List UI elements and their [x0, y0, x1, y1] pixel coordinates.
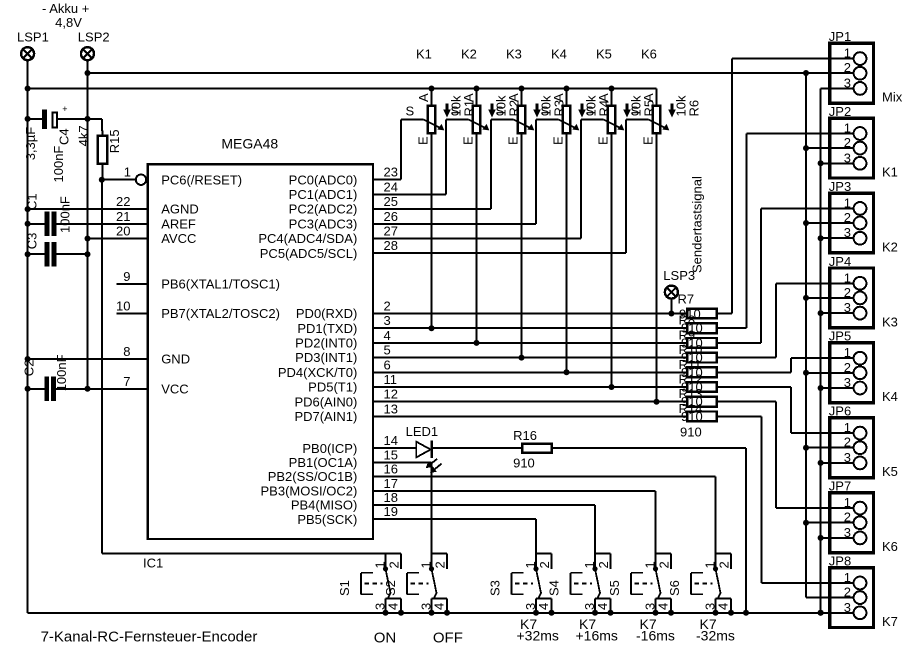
- svg-text:PC0(ADC0): PC0(ADC0): [289, 172, 358, 187]
- connector JP6 (K5): [828, 404, 898, 480]
- svg-text:PC1(ADC1): PC1(ADC1): [289, 187, 358, 202]
- potentiometer K3 (R3 10k): [491, 47, 567, 361]
- svg-text:3: 3: [844, 225, 851, 240]
- svg-text:1: 1: [844, 121, 851, 136]
- svg-text:3: 3: [844, 300, 851, 315]
- svg-text:K5: K5: [882, 464, 898, 479]
- IC1 right pin labels: [258, 172, 357, 527]
- svg-text:PD1(TXD): PD1(TXD): [297, 321, 357, 336]
- wire JP5 pin2 from plus rail: [806, 372, 828, 374]
- svg-text:K6: K6: [882, 539, 898, 554]
- svg-text:26: 26: [384, 209, 398, 224]
- wire PC3 ADC3 to K4 wiper: [373, 223, 536, 225]
- svg-text:16: 16: [384, 462, 398, 477]
- svg-text:K1: K1: [882, 165, 898, 180]
- svg-text:1: 1: [124, 165, 131, 180]
- svg-text:E: E: [461, 136, 476, 145]
- connector JP5 (K4): [828, 329, 898, 405]
- svg-text:15: 15: [384, 447, 398, 462]
- svg-text:1: 1: [844, 570, 851, 585]
- svg-text:-16ms: -16ms: [636, 628, 675, 644]
- svg-text:K1: K1: [416, 47, 432, 62]
- wire PB3 to S5: [373, 490, 656, 492]
- svg-text:AGND: AGND: [161, 202, 199, 217]
- svg-text:ON: ON: [374, 629, 397, 646]
- svg-text:C4: C4: [57, 128, 72, 145]
- svg-text:1: 1: [582, 561, 597, 568]
- svg-text:E: E: [596, 136, 611, 145]
- svg-text:VCC: VCC: [161, 381, 188, 396]
- wire PD7: [373, 415, 686, 417]
- wire plus bus horizontal: [88, 72, 829, 74]
- svg-text:910: 910: [681, 409, 703, 424]
- svg-text:1: 1: [643, 561, 658, 568]
- wire GND pin8: [28, 358, 148, 360]
- svg-text:LSP1: LSP1: [17, 30, 49, 45]
- svg-text:R6: R6: [687, 100, 702, 117]
- wire JP6 pin3 from minus rail: [821, 462, 829, 464]
- connector JP8 (K7): [828, 554, 898, 630]
- svg-text:27: 27: [384, 224, 398, 239]
- capacitor C1 on AREF: [28, 223, 45, 225]
- potentiometer K4 (R4 10k): [536, 47, 612, 376]
- connector JP1 (Mix): [828, 29, 903, 105]
- svg-text:C3: C3: [25, 233, 40, 250]
- svg-text:6: 6: [384, 357, 391, 372]
- svg-text:PD4(XCK/T0): PD4(XCK/T0): [278, 365, 357, 380]
- svg-text:24: 24: [384, 179, 398, 194]
- svg-text:2: 2: [844, 510, 851, 525]
- svg-text:1: 1: [523, 561, 538, 568]
- svg-text:10: 10: [116, 299, 130, 314]
- svg-text:910: 910: [680, 425, 702, 440]
- svg-text:2: 2: [596, 561, 611, 568]
- svg-text:S: S: [406, 104, 415, 119]
- wire LSP3 to PD0: [670, 299, 672, 314]
- svg-text:21: 21: [116, 209, 130, 224]
- svg-text:2: 2: [844, 210, 851, 225]
- svg-text:K4: K4: [882, 389, 898, 404]
- wire PD6: [373, 401, 686, 403]
- wire minus rail vertical: [27, 60, 29, 613]
- connector JP2 (K1): [828, 104, 898, 180]
- svg-text:S4: S4: [547, 580, 562, 596]
- svg-text:PB3(MOSI/OC2): PB3(MOSI/OC2): [261, 483, 358, 498]
- svg-text:910: 910: [513, 456, 535, 471]
- capacitor C2 on VCC: [28, 388, 45, 390]
- svg-text:1: 1: [844, 270, 851, 285]
- svg-text:A: A: [416, 93, 431, 102]
- svg-text:A: A: [461, 93, 476, 102]
- wire R7 output to JP1 pin1: [718, 313, 732, 315]
- potentiometer K1 (R1 10k): [401, 47, 477, 332]
- switch S3: [511, 554, 554, 616]
- connector JP7 (K6): [828, 479, 898, 554]
- capacitor C3 plus to minus: [28, 253, 45, 255]
- svg-text:4: 4: [536, 603, 551, 610]
- svg-text:A: A: [596, 93, 611, 102]
- svg-text:-32ms: -32ms: [696, 628, 735, 644]
- svg-text:2: 2: [387, 561, 402, 568]
- svg-text:R15: R15: [107, 129, 122, 153]
- svg-text:4k7: 4k7: [76, 125, 91, 146]
- wire JP8 pin3 from minus rail: [821, 612, 829, 614]
- svg-text:PC2(ADC2): PC2(ADC2): [289, 202, 358, 217]
- wire reset vertical to S1: [101, 180, 103, 554]
- wire R11 output to JP5 pin1: [718, 371, 791, 373]
- wire JP1 pin3 from minus rail: [821, 87, 829, 89]
- svg-text:PD3(INT1): PD3(INT1): [295, 350, 357, 365]
- svg-text:2: 2: [844, 435, 851, 450]
- svg-text:R16: R16: [513, 428, 537, 443]
- IC1 left pin labels: [161, 172, 280, 396]
- svg-text:100nF: 100nF: [51, 146, 66, 183]
- node plus bus junction: [85, 70, 91, 76]
- svg-text:1: 1: [373, 561, 388, 568]
- svg-text:- Akku +: - Akku +: [42, 1, 89, 16]
- wire PB5 to S3: [373, 518, 536, 520]
- wire PB0 pin14: [373, 447, 416, 449]
- node C4 minus rail: [25, 116, 31, 122]
- resistor R15: [101, 119, 104, 135]
- svg-text:LSP2: LSP2: [78, 30, 110, 45]
- wire R16 to minus: [552, 447, 746, 449]
- wire JP1 pin2 from plus rail: [806, 72, 828, 74]
- svg-text:18: 18: [384, 490, 398, 505]
- wire PC2 ADC2 to K3 wiper: [373, 208, 491, 210]
- svg-text:OFF: OFF: [433, 629, 463, 646]
- wire PD2: [373, 342, 686, 344]
- svg-text:23: 23: [384, 165, 398, 180]
- svg-text:AREF: AREF: [161, 216, 196, 231]
- wire LED1 to R16: [432, 447, 522, 449]
- resistor R10 910: [679, 342, 717, 365]
- svg-text:K6: K6: [641, 47, 657, 62]
- svg-text:E: E: [641, 136, 656, 145]
- pin 1 inversion bubble: [136, 175, 146, 185]
- svg-text:2: 2: [844, 135, 851, 150]
- svg-text:LSP3: LSP3: [663, 268, 695, 283]
- svg-text:3: 3: [844, 375, 851, 390]
- svg-text:S1: S1: [337, 580, 352, 596]
- svg-text:C2: C2: [22, 360, 37, 377]
- terminal LSP1: [21, 47, 34, 60]
- svg-text:4,8V: 4,8V: [55, 15, 82, 30]
- wire AVCC pin20: [88, 238, 148, 240]
- wire PC4 ADC4 to K5 wiper: [373, 238, 581, 240]
- svg-text:K2: K2: [461, 47, 477, 62]
- svg-text:4: 4: [655, 603, 670, 610]
- svg-text:PB5(SCK): PB5(SCK): [297, 512, 357, 527]
- svg-text:1: 1: [419, 561, 434, 568]
- wire PC1 ADC1 to K2 wiper: [373, 193, 446, 195]
- pin numbers right side: [384, 165, 398, 520]
- svg-text:S5: S5: [607, 580, 622, 596]
- svg-text:4: 4: [715, 603, 730, 610]
- svg-text:S: S: [541, 104, 550, 119]
- wire reset to pin1 bubble: [102, 179, 136, 181]
- wire PD4: [373, 371, 686, 373]
- connector JP4 (K3): [828, 254, 898, 330]
- svg-text:A: A: [551, 93, 566, 102]
- svg-text:8: 8: [123, 344, 130, 359]
- svg-text:4: 4: [431, 603, 446, 610]
- svg-text:100nF: 100nF: [54, 354, 69, 391]
- potentiometer K6 (R6 10k): [626, 47, 702, 405]
- svg-text:S2: S2: [383, 580, 398, 596]
- wire JP2 pin3 from minus rail: [821, 162, 829, 164]
- switch S6: [691, 554, 734, 616]
- svg-text:S: S: [631, 104, 640, 119]
- svg-text:K4: K4: [551, 47, 567, 62]
- svg-text:4: 4: [385, 603, 400, 610]
- svg-text:2: 2: [657, 561, 672, 568]
- resistor R11 910: [679, 357, 717, 380]
- svg-text:2: 2: [717, 561, 732, 568]
- resistor R9 910: [679, 327, 717, 350]
- svg-text:3,3µF: 3,3µF: [23, 127, 38, 161]
- svg-text:+: +: [62, 104, 67, 114]
- svg-text:S3: S3: [488, 580, 503, 596]
- wire minus pin3 rail: [820, 88, 822, 612]
- svg-text:3: 3: [844, 450, 851, 465]
- svg-text:7-Kanal-RC-Fernsteuer-Encoder: 7-Kanal-RC-Fernsteuer-Encoder: [41, 629, 258, 646]
- connector JP3 (K2): [828, 179, 898, 255]
- svg-text:4: 4: [384, 328, 391, 343]
- svg-text:3: 3: [844, 75, 851, 90]
- svg-text:14: 14: [384, 433, 398, 448]
- wire R9 output to JP3 pin1: [718, 342, 761, 344]
- switch S4: [570, 554, 613, 616]
- svg-text:13: 13: [384, 401, 398, 416]
- svg-text:3: 3: [844, 525, 851, 540]
- wire JP3 pin2 from plus rail: [806, 222, 828, 224]
- wire R8 output to JP2 pin1: [718, 327, 747, 329]
- capacitor C4: [28, 118, 42, 120]
- svg-text:PC5(ADC5/SCL): PC5(ADC5/SCL): [260, 246, 358, 261]
- wire PB1 to S2: [373, 461, 432, 463]
- wire minus bus horizontal: [28, 88, 657, 90]
- svg-text:1: 1: [844, 46, 851, 61]
- svg-text:3: 3: [384, 313, 391, 328]
- wire AGND pin22: [28, 208, 148, 210]
- svg-text:+32ms: +32ms: [517, 628, 559, 644]
- svg-text:1: 1: [844, 195, 851, 210]
- svg-text:K2: K2: [882, 239, 898, 254]
- svg-text:2: 2: [384, 299, 391, 314]
- switch S5: [631, 554, 674, 616]
- svg-text:C1: C1: [25, 193, 40, 210]
- svg-text:11: 11: [384, 372, 398, 387]
- svg-text:PD6(AIN0): PD6(AIN0): [294, 394, 357, 409]
- node LSP3 junction: [668, 311, 674, 317]
- svg-text:PC6(/RESET): PC6(/RESET): [161, 172, 242, 187]
- svg-text:2: 2: [537, 561, 552, 568]
- svg-text:K5: K5: [596, 47, 612, 62]
- svg-text:PD7(AIN1): PD7(AIN1): [294, 409, 357, 424]
- svg-text:2: 2: [844, 585, 851, 600]
- wire JP3 pin3 from minus rail: [821, 237, 829, 239]
- svg-text:PB2(SS/OC1B): PB2(SS/OC1B): [268, 469, 358, 484]
- svg-text:1: 1: [844, 420, 851, 435]
- wire JP7 pin3 from minus rail: [821, 537, 829, 539]
- svg-text:100nF: 100nF: [58, 196, 73, 233]
- wire PD0 pin2: [373, 313, 686, 315]
- ic IC1 MEGA48 body: [148, 164, 373, 539]
- svg-text:GND: GND: [161, 352, 190, 367]
- svg-text:AVCC: AVCC: [161, 231, 196, 246]
- svg-text:PB7(XTAL2/TOSC2): PB7(XTAL2/TOSC2): [161, 306, 280, 321]
- wire R14 output to JP8 pin1: [718, 415, 762, 417]
- svg-text:PB0(ICP): PB0(ICP): [302, 441, 357, 456]
- svg-text:7: 7: [123, 374, 130, 389]
- wire R10 output to JP4 pin1: [718, 357, 776, 359]
- svg-text:12: 12: [384, 387, 398, 402]
- svg-text:1: 1: [844, 495, 851, 510]
- svg-text:MEGA48: MEGA48: [221, 136, 278, 152]
- resistor R16 910: [513, 428, 552, 471]
- svg-text:1: 1: [703, 561, 718, 568]
- svg-text:E: E: [551, 136, 566, 145]
- svg-text:2: 2: [844, 60, 851, 75]
- svg-text:22: 22: [116, 194, 130, 209]
- svg-text:K7: K7: [882, 614, 898, 629]
- pin 10 stub: [117, 313, 148, 315]
- wire reset to S1: [102, 553, 386, 555]
- svg-text:3: 3: [844, 150, 851, 165]
- svg-text:PC4(ADC4/SDA): PC4(ADC4/SDA): [258, 231, 357, 246]
- svg-text:A: A: [641, 93, 656, 102]
- node reset junction: [99, 177, 105, 183]
- svg-text:25: 25: [384, 194, 398, 209]
- resistor R14 910: [679, 401, 717, 424]
- svg-text:PD0(RXD): PD0(RXD): [296, 306, 357, 321]
- wire JP5 pin3 from minus rail: [821, 387, 829, 389]
- wire JP2 pin2 from plus rail: [806, 147, 828, 149]
- pin numbers left side: [116, 194, 130, 389]
- wire JP7 pin2 from plus rail: [806, 522, 828, 524]
- wire PD5: [373, 386, 686, 388]
- svg-text:Sendertastsignal: Sendertastsignal: [690, 176, 705, 273]
- wire PD3: [373, 357, 686, 359]
- svg-text:28: 28: [384, 238, 398, 253]
- switch S2: [407, 554, 450, 616]
- potentiometer K2 (R2 10k): [446, 47, 522, 346]
- svg-text:2: 2: [844, 285, 851, 300]
- node C4 plus rail: [85, 116, 91, 122]
- svg-text:R7: R7: [678, 292, 695, 307]
- svg-text:2: 2: [433, 561, 448, 568]
- switch S1: [361, 554, 404, 616]
- svg-text:20: 20: [116, 224, 130, 239]
- svg-text:Mix: Mix: [882, 90, 903, 105]
- wire PC5 ADC5 to K6 wiper: [373, 252, 626, 254]
- svg-text:E: E: [506, 136, 521, 145]
- svg-text:S6: S6: [667, 580, 682, 596]
- node minus bus junction: [25, 86, 31, 92]
- resistor R7 910: [679, 307, 717, 322]
- svg-text:IC1: IC1: [143, 556, 163, 571]
- wire PB4 to S4: [373, 504, 595, 506]
- svg-text:K3: K3: [506, 47, 522, 62]
- svg-text:PB6(XTAL1/TOSC1): PB6(XTAL1/TOSC1): [161, 277, 280, 292]
- resistor R12 910: [679, 372, 717, 395]
- svg-text:A: A: [506, 93, 521, 102]
- wire plus rail vertical: [87, 60, 89, 389]
- svg-text:PC3(ADC3): PC3(ADC3): [289, 216, 358, 231]
- resistor R8 910: [679, 313, 717, 336]
- wire R12 output to JP6 pin1: [718, 386, 791, 388]
- svg-text:LED1: LED1: [406, 424, 439, 439]
- wire bottom minus: [28, 612, 854, 614]
- pin 9 stub: [117, 283, 148, 285]
- svg-text:5: 5: [384, 343, 391, 358]
- svg-text:PB4(MISO): PB4(MISO): [291, 498, 357, 513]
- wire plus rail to JP pin2 rail: [805, 73, 807, 598]
- wire JP8 pin2 from plus rail: [806, 597, 828, 599]
- wire R13 output to JP7 pin1: [718, 401, 776, 403]
- wire JP4 pin2 from plus rail: [806, 297, 828, 299]
- wire JP4 pin3 from minus rail: [821, 312, 829, 314]
- wire PB2 to S6: [373, 476, 716, 478]
- svg-text:K3: K3: [882, 314, 898, 329]
- svg-text:17: 17: [384, 476, 398, 491]
- svg-text:S: S: [451, 104, 460, 119]
- wire PD1: [373, 327, 686, 329]
- svg-text:+16ms: +16ms: [576, 628, 618, 644]
- svg-text:PD2(INT0): PD2(INT0): [295, 336, 357, 351]
- svg-text:4: 4: [595, 603, 610, 610]
- svg-text:9: 9: [123, 269, 130, 284]
- svg-text:PB1(OC1A): PB1(OC1A): [289, 455, 358, 470]
- resistor R13 910: [679, 386, 717, 409]
- led LED1: [406, 424, 442, 473]
- svg-text:PD5(T1): PD5(T1): [308, 380, 357, 395]
- terminal LSP2: [81, 47, 94, 60]
- svg-text:S: S: [496, 104, 505, 119]
- terminal LSP3: [665, 286, 678, 299]
- wire PC0 ADC0 to K1 wiper: [373, 179, 401, 181]
- svg-text:E: E: [416, 136, 431, 145]
- svg-text:1: 1: [844, 345, 851, 360]
- svg-text:2: 2: [844, 360, 851, 375]
- svg-text:S: S: [586, 104, 595, 119]
- svg-text:19: 19: [384, 504, 398, 519]
- potentiometer K5 (R5 10k): [581, 47, 657, 390]
- wire JP6 pin2 from plus rail: [806, 447, 828, 449]
